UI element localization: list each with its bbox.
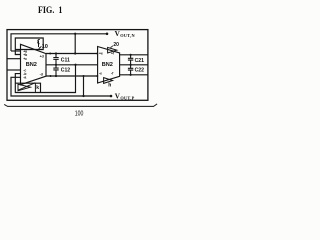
slant line bottom chopper <box>18 83 36 91</box>
junction dot wire C <box>82 95 84 97</box>
wire mid rail right span <box>120 64 148 66</box>
clock tick bottom <box>34 83 36 92</box>
capacitor C11 <box>53 52 70 64</box>
wire net VOUT,N (top feedback) <box>11 34 107 51</box>
chopper triangle 20 top <box>108 47 117 53</box>
svg-text:-e: -e <box>99 72 102 76</box>
svg-text:+d: +d <box>40 54 44 58</box>
svg-text:-d: -d <box>40 72 43 76</box>
label 10 with arrow <box>38 44 48 50</box>
wire bottom rail left span <box>46 75 98 77</box>
wire top rail left span <box>46 53 98 55</box>
svg-text:C11: C11 <box>61 58 70 64</box>
amplifier BN2 right (block 20) trapezoid <box>98 47 120 84</box>
label VOUT,N <box>115 30 136 38</box>
clock tick top <box>38 41 40 47</box>
svg-text:BN2: BN2 <box>26 62 37 68</box>
svg-text:+c: +c <box>23 57 27 61</box>
svg-text:OUT,P: OUT,P <box>120 95 134 100</box>
svg-text:C12: C12 <box>61 68 71 74</box>
svg-text:FIG. 1: FIG. 1 <box>38 5 63 16</box>
svg-text:BN2: BN2 <box>102 62 113 68</box>
junction dot pin -e <box>96 75 98 77</box>
svg-text:C22: C22 <box>135 68 145 74</box>
junction dot +d <box>49 53 51 55</box>
outer block 100 border <box>7 30 148 101</box>
junction dot bottom rail <box>82 75 84 77</box>
svg-text:h: h <box>108 82 111 88</box>
wire input pin c stub <box>7 58 21 60</box>
svg-text:k: k <box>36 85 39 91</box>
capacitor C21 <box>128 54 144 65</box>
node VOUT,N terminal dot <box>106 33 109 36</box>
wire feedback loop 10 (top rect) + pin b stub <box>15 38 43 55</box>
svg-text:10: 10 <box>42 44 48 50</box>
wire net VOUT,P (bottom feedback) <box>11 77 111 96</box>
junction dot -d <box>50 75 52 77</box>
amplifier BN2 left (block 10) trapezoid <box>21 44 47 84</box>
wire vertical VOUT,P to bottom rail <box>83 76 85 96</box>
svg-text:100: 100 <box>75 108 84 117</box>
node VOUT,P terminal dot <box>110 95 113 98</box>
svg-text:+e: +e <box>99 52 103 56</box>
clock squiggle <box>38 39 40 43</box>
wire vertical VOUT,N to top rail <box>74 34 76 54</box>
wire pin a stub <box>11 50 21 52</box>
svg-text:OUT,N: OUT,N <box>120 33 135 38</box>
junction dot mid rail <box>74 64 76 66</box>
svg-text:-a: -a <box>23 76 26 80</box>
wire input pin -c stub <box>7 69 21 71</box>
wire top rail right span <box>120 54 148 56</box>
svg-text:C21: C21 <box>135 58 145 64</box>
svg-text:20: 20 <box>113 42 119 48</box>
junction dot wire A top <box>74 33 76 35</box>
wire feedback loop k (bottom) to mid rail <box>15 65 75 93</box>
chopper triangle h bottom <box>104 78 113 84</box>
brace reference 100 <box>4 104 157 107</box>
label VOUT,P <box>115 93 135 101</box>
junction dot top rail <box>74 52 76 54</box>
label 20 with arrow <box>110 42 119 48</box>
junction dot pin +e <box>96 53 98 55</box>
wire bottom rect top/right edges <box>15 83 40 92</box>
op-amp k (bottom chopper triangle) <box>18 84 30 90</box>
capacitor C12 <box>53 64 70 77</box>
wire mid rail left span <box>46 64 98 66</box>
wire bottom rail right span <box>120 74 148 76</box>
capacitor C22 <box>128 64 144 76</box>
